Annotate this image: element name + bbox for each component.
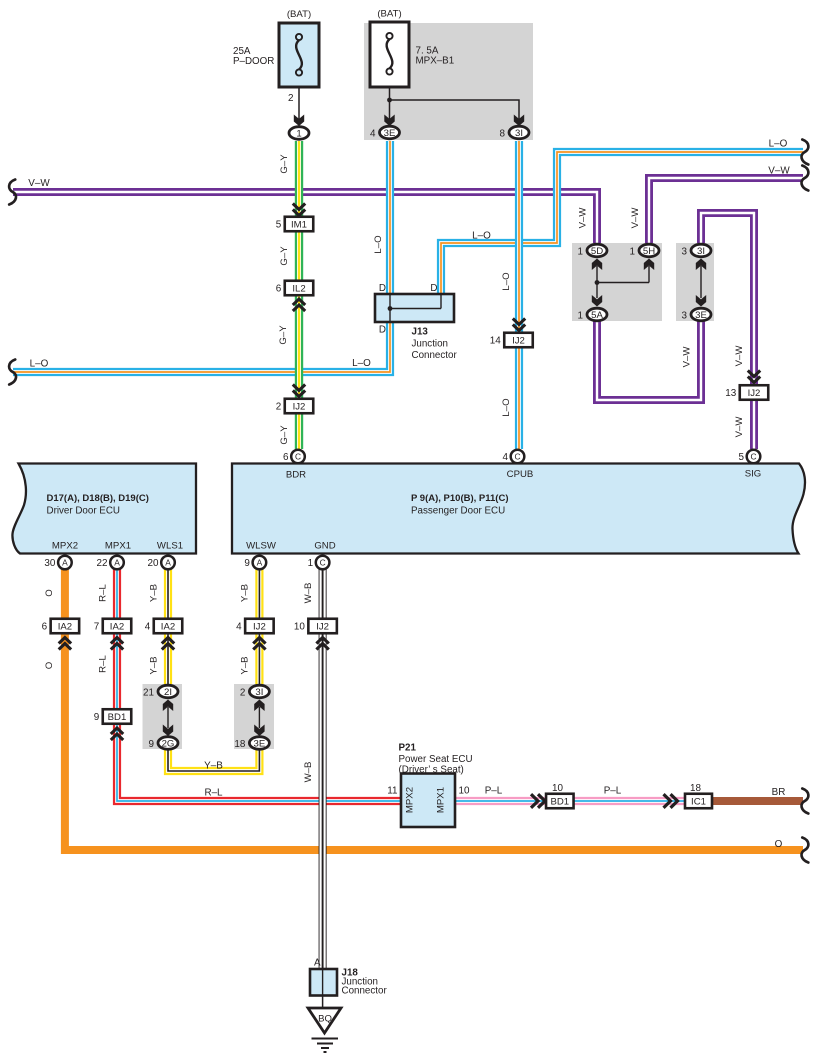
svg-text:R–L: R–L bbox=[98, 655, 109, 673]
svg-text:Junction: Junction bbox=[412, 339, 449, 350]
svg-text:V–W: V–W bbox=[734, 416, 745, 438]
svg-text:Power Seat ECU: Power Seat ECU bbox=[399, 754, 473, 765]
svg-text:5A: 5A bbox=[591, 310, 603, 321]
svg-text:5: 5 bbox=[739, 452, 745, 463]
svg-text:10: 10 bbox=[552, 783, 563, 794]
svg-text:21: 21 bbox=[143, 687, 154, 698]
svg-text:BD1: BD1 bbox=[108, 712, 127, 723]
svg-text:BDR: BDR bbox=[286, 470, 306, 481]
svg-text:10: 10 bbox=[459, 786, 470, 797]
svg-text:BR: BR bbox=[772, 787, 786, 798]
svg-text:V–W: V–W bbox=[768, 166, 790, 177]
svg-text:Connector: Connector bbox=[342, 986, 388, 997]
svg-text:2G: 2G bbox=[162, 738, 175, 749]
svg-text:MPX1: MPX1 bbox=[105, 541, 131, 552]
svg-text:Y–B: Y–B bbox=[204, 761, 223, 772]
svg-text:1: 1 bbox=[578, 310, 584, 321]
svg-text:C: C bbox=[295, 452, 301, 462]
svg-text:L–O: L–O bbox=[769, 139, 788, 150]
svg-text:13: 13 bbox=[725, 388, 736, 399]
svg-text:G–Y: G–Y bbox=[279, 425, 290, 445]
svg-text:G–Y: G–Y bbox=[278, 325, 289, 345]
svg-text:4: 4 bbox=[503, 452, 509, 463]
svg-text:3E: 3E bbox=[384, 128, 396, 139]
svg-text:Y–B: Y–B bbox=[149, 584, 160, 602]
svg-text:IA2: IA2 bbox=[110, 622, 124, 633]
svg-text:1: 1 bbox=[296, 128, 301, 139]
svg-text:14: 14 bbox=[490, 336, 501, 347]
svg-text:WLS1: WLS1 bbox=[157, 541, 183, 552]
svg-text:G–Y: G–Y bbox=[279, 246, 290, 266]
svg-text:WLSW: WLSW bbox=[246, 541, 277, 552]
svg-text:5: 5 bbox=[276, 220, 282, 231]
svg-text:9: 9 bbox=[149, 739, 155, 750]
svg-text:3E: 3E bbox=[695, 310, 707, 321]
svg-text:IJ2: IJ2 bbox=[253, 622, 266, 633]
svg-text:IC1: IC1 bbox=[691, 797, 706, 808]
svg-text:P–L: P–L bbox=[604, 786, 622, 797]
svg-text:V–W: V–W bbox=[734, 345, 745, 367]
svg-text:2I: 2I bbox=[164, 687, 172, 698]
svg-text:O: O bbox=[44, 662, 55, 669]
svg-text:Y–B: Y–B bbox=[240, 656, 251, 674]
svg-text:L–O: L–O bbox=[501, 272, 512, 290]
svg-text:3I: 3I bbox=[515, 128, 523, 139]
svg-text:L–O: L–O bbox=[373, 235, 384, 253]
svg-text:V–W: V–W bbox=[682, 346, 693, 368]
svg-text:3E: 3E bbox=[254, 738, 266, 749]
svg-text:R–L: R–L bbox=[98, 584, 109, 602]
svg-text:A: A bbox=[314, 958, 321, 969]
svg-text:8: 8 bbox=[500, 128, 506, 139]
svg-text:2: 2 bbox=[288, 93, 294, 104]
svg-text:6: 6 bbox=[42, 622, 48, 633]
svg-text:9: 9 bbox=[94, 712, 100, 723]
svg-text:P–DOOR: P–DOOR bbox=[233, 56, 274, 67]
svg-text:20: 20 bbox=[148, 558, 159, 569]
svg-text:P–L: P–L bbox=[485, 786, 503, 797]
svg-text:IJ2: IJ2 bbox=[512, 336, 525, 347]
svg-text:BD1: BD1 bbox=[550, 797, 569, 808]
svg-text:W–B: W–B bbox=[303, 583, 314, 604]
svg-text:IL2: IL2 bbox=[292, 284, 305, 295]
svg-text:P 9(A), P10(B), P11(C): P 9(A), P10(B), P11(C) bbox=[411, 493, 509, 504]
svg-text:6: 6 bbox=[276, 284, 282, 295]
svg-text:3: 3 bbox=[682, 246, 688, 257]
svg-text:IA2: IA2 bbox=[161, 622, 175, 633]
svg-text:J13: J13 bbox=[412, 327, 429, 338]
svg-text:11: 11 bbox=[387, 786, 398, 797]
svg-text:1: 1 bbox=[578, 246, 584, 257]
svg-text:IM1: IM1 bbox=[291, 220, 307, 231]
svg-text:18: 18 bbox=[690, 783, 701, 794]
svg-text:5H: 5H bbox=[643, 246, 655, 257]
svg-text:GND: GND bbox=[314, 541, 335, 552]
svg-text:IJ2: IJ2 bbox=[316, 622, 329, 633]
svg-text:C: C bbox=[750, 452, 756, 462]
svg-text:A: A bbox=[62, 558, 68, 568]
svg-text:3I: 3I bbox=[255, 687, 263, 698]
svg-text:Connector: Connector bbox=[412, 350, 458, 361]
svg-text:A: A bbox=[165, 558, 171, 568]
svg-text:2: 2 bbox=[276, 402, 282, 413]
svg-text:V–W: V–W bbox=[28, 178, 50, 189]
svg-text:C: C bbox=[514, 452, 520, 462]
svg-text:1: 1 bbox=[630, 246, 636, 257]
svg-text:Passenger Door ECU: Passenger Door ECU bbox=[411, 506, 505, 517]
svg-text:L–O: L–O bbox=[501, 398, 512, 416]
svg-text:MPX1: MPX1 bbox=[436, 787, 447, 813]
svg-text:G–Y: G–Y bbox=[279, 154, 290, 174]
svg-text:D: D bbox=[379, 283, 386, 294]
svg-text:30: 30 bbox=[44, 558, 55, 569]
svg-text:SIG: SIG bbox=[745, 469, 762, 480]
svg-text:C: C bbox=[320, 558, 326, 568]
svg-text:7: 7 bbox=[94, 622, 100, 633]
svg-text:2: 2 bbox=[240, 687, 246, 698]
svg-text:5D: 5D bbox=[591, 246, 603, 257]
svg-text:A: A bbox=[257, 558, 263, 568]
svg-text:W–B: W–B bbox=[303, 762, 314, 783]
svg-text:A: A bbox=[114, 558, 120, 568]
svg-text:O: O bbox=[775, 839, 783, 850]
svg-text:Y–B: Y–B bbox=[149, 656, 160, 674]
svg-text:V–W: V–W bbox=[578, 207, 589, 229]
svg-text:L–O: L–O bbox=[30, 359, 49, 370]
svg-text:D17(A), D18(B), D19(C): D17(A), D18(B), D19(C) bbox=[47, 493, 149, 504]
svg-text:4: 4 bbox=[145, 622, 151, 633]
svg-text:IJ2: IJ2 bbox=[748, 388, 761, 399]
svg-text:(BAT): (BAT) bbox=[377, 9, 401, 20]
svg-text:4: 4 bbox=[236, 622, 242, 633]
svg-text:3: 3 bbox=[682, 310, 688, 321]
svg-text:D: D bbox=[430, 283, 437, 294]
svg-text:MPX2: MPX2 bbox=[52, 541, 78, 552]
svg-text:18: 18 bbox=[234, 739, 245, 750]
svg-text:6: 6 bbox=[283, 452, 289, 463]
svg-text:O: O bbox=[44, 589, 55, 596]
svg-text:22: 22 bbox=[97, 558, 108, 569]
svg-text:MPX–B1: MPX–B1 bbox=[416, 56, 455, 67]
svg-text:10: 10 bbox=[294, 622, 305, 633]
svg-text:3I: 3I bbox=[697, 246, 705, 257]
svg-text:IA2: IA2 bbox=[58, 622, 72, 633]
svg-text:D: D bbox=[379, 325, 386, 336]
svg-text:Y–B: Y–B bbox=[240, 584, 251, 602]
svg-text:MPX2: MPX2 bbox=[405, 787, 416, 813]
svg-text:V–W: V–W bbox=[630, 207, 641, 229]
svg-text:4: 4 bbox=[370, 128, 376, 139]
svg-text:L–O: L–O bbox=[352, 358, 371, 369]
svg-text:(BAT): (BAT) bbox=[287, 9, 311, 20]
svg-text:R–L: R–L bbox=[204, 788, 223, 799]
svg-text:BQ: BQ bbox=[318, 1014, 332, 1025]
svg-text:9: 9 bbox=[244, 558, 250, 569]
svg-text:CPUB: CPUB bbox=[507, 469, 534, 480]
svg-text:L–O: L–O bbox=[472, 231, 491, 242]
svg-text:1: 1 bbox=[308, 558, 314, 569]
svg-text:Driver Door ECU: Driver Door ECU bbox=[47, 506, 121, 517]
svg-text:P21: P21 bbox=[399, 743, 417, 754]
svg-text:IJ2: IJ2 bbox=[293, 402, 306, 413]
